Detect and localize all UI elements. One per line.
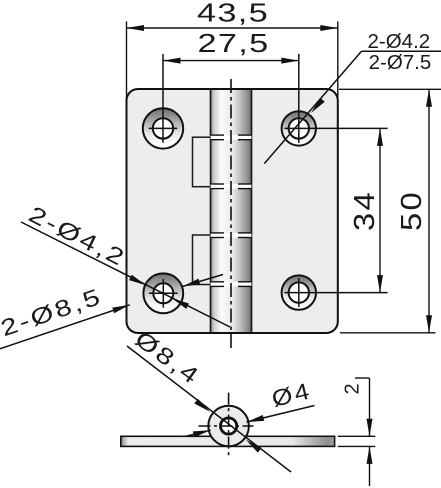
leader segment left of pin hole (186, 430, 211, 436)
svg-text:2-Ø4.2: 2-Ø4.2 (368, 30, 431, 53)
hole bottom-left: counterbore (143, 273, 183, 313)
arrowhead down (377, 275, 383, 293)
svg-text:2: 2 (342, 383, 364, 394)
arrowhead at knuckle left edge (193, 427, 211, 437)
extension line right of bottom-right hole (284, 292, 387, 294)
dimension 43,5 (127, 0, 338, 101)
dimension line 34 (379, 128, 381, 292)
side view horizontal centerline (199, 425, 254, 427)
hole bottom-right: counterbore (282, 275, 316, 309)
leader line through bottom-left hole (21, 222, 230, 327)
svg-text:27,5: 27,5 (198, 29, 270, 58)
callout underline (362, 50, 441, 52)
arrowhead left (163, 58, 181, 64)
leader arrowhead (309, 98, 325, 115)
knuckle cutout rectangle (segment 2) (193, 137, 211, 187)
arrowhead down (367, 419, 373, 437)
arrowhead right (281, 58, 299, 64)
leader line right of pin hole (247, 406, 315, 423)
svg-text:2-Ø4,2: 2-Ø4,2 (25, 201, 131, 272)
arrowhead up (377, 128, 383, 146)
arrowhead toward hole upper-right (182, 279, 200, 290)
barrel division gap 2 (211, 184, 252, 189)
dimension line lower (369, 446, 371, 486)
extension line bottom surface (338, 445, 376, 447)
side view bar (plate thickness) (121, 436, 335, 446)
svg-text:2-Ø8,5: 2-Ø8,5 (0, 283, 105, 342)
hole top-right: counterbore (282, 111, 316, 145)
arrowhead down (426, 315, 432, 333)
barrel right edge (251, 89, 253, 333)
callout Ø8,4 (to side view knuckle) (127, 326, 291, 472)
leader line lower-left (0, 305, 130, 349)
extension line right (337, 22, 339, 101)
dimension 34 (348, 128, 383, 292)
side view knuckle inner circle (pin hole) (221, 418, 237, 434)
dimension line 27,5 (163, 60, 299, 62)
knuckle cutout rectangle (segment 4) (193, 235, 211, 285)
extension line through top-left hole (162, 54, 164, 143)
barrel division gap 3 (211, 233, 252, 238)
arrowhead at hole lower-right (171, 296, 189, 309)
dimension line upper (369, 378, 371, 436)
svg-text:50: 50 (395, 190, 428, 231)
dimension line 50 (428, 89, 430, 332)
side view knuckle outer circle (208, 406, 249, 447)
extension line right of top-right hole (284, 127, 387, 129)
extension line left (126, 22, 128, 101)
extension line through top-right hole (298, 54, 300, 143)
dimension 50 (339, 89, 441, 332)
side view vertical centerline (228, 393, 230, 459)
arrowhead up (426, 89, 432, 107)
leader line to top-right hole (264, 51, 361, 163)
svg-text:34: 34 (348, 190, 381, 231)
opposite leader segment upper-right (183, 275, 224, 287)
arrowhead toward hole lower-left (112, 302, 130, 313)
callout 2-Ø8,5 (slanted, to bottom-left hole) (0, 275, 223, 349)
barrel division gap 4 (211, 282, 252, 287)
hinge plate (top view) (127, 89, 338, 333)
svg-text:43,5: 43,5 (197, 0, 269, 27)
callout 2-Ø4,2 (slanted, to bottom-left hole) (21, 201, 230, 327)
extension line top surface (338, 435, 376, 437)
svg-text:2-Ø7.5: 2-Ø7.5 (369, 51, 432, 74)
extension line top (339, 88, 441, 90)
hole top-left: counterbore (143, 108, 183, 148)
hook line to value label (355, 377, 370, 379)
dimension 2 (plate thickness) (338, 378, 376, 486)
arrowhead at knuckle upper-left (194, 399, 212, 414)
extension line bottom (340, 332, 436, 334)
arrowhead at hole upper-left (129, 275, 147, 288)
arrowhead right (320, 25, 338, 31)
callout 2-Ø4.2 / 2-Ø7.5 (top-right holes) (264, 30, 441, 163)
hinge barrel strip (211, 90, 252, 332)
callout Ø4 (to side view pin hole) (186, 379, 315, 438)
arrowhead at knuckle right edge (246, 415, 264, 425)
arrowhead up (367, 446, 373, 464)
arrowhead at knuckle lower-right (244, 437, 262, 452)
barrel centerline (dash-dot) (230, 79, 232, 350)
dimension line 43,5 (127, 27, 338, 29)
leader line through knuckle (127, 346, 291, 472)
barrel left edge (210, 89, 212, 333)
dimension 27,5 (163, 29, 299, 64)
arrowhead left (127, 25, 145, 31)
barrel division gap 1 (211, 135, 252, 140)
